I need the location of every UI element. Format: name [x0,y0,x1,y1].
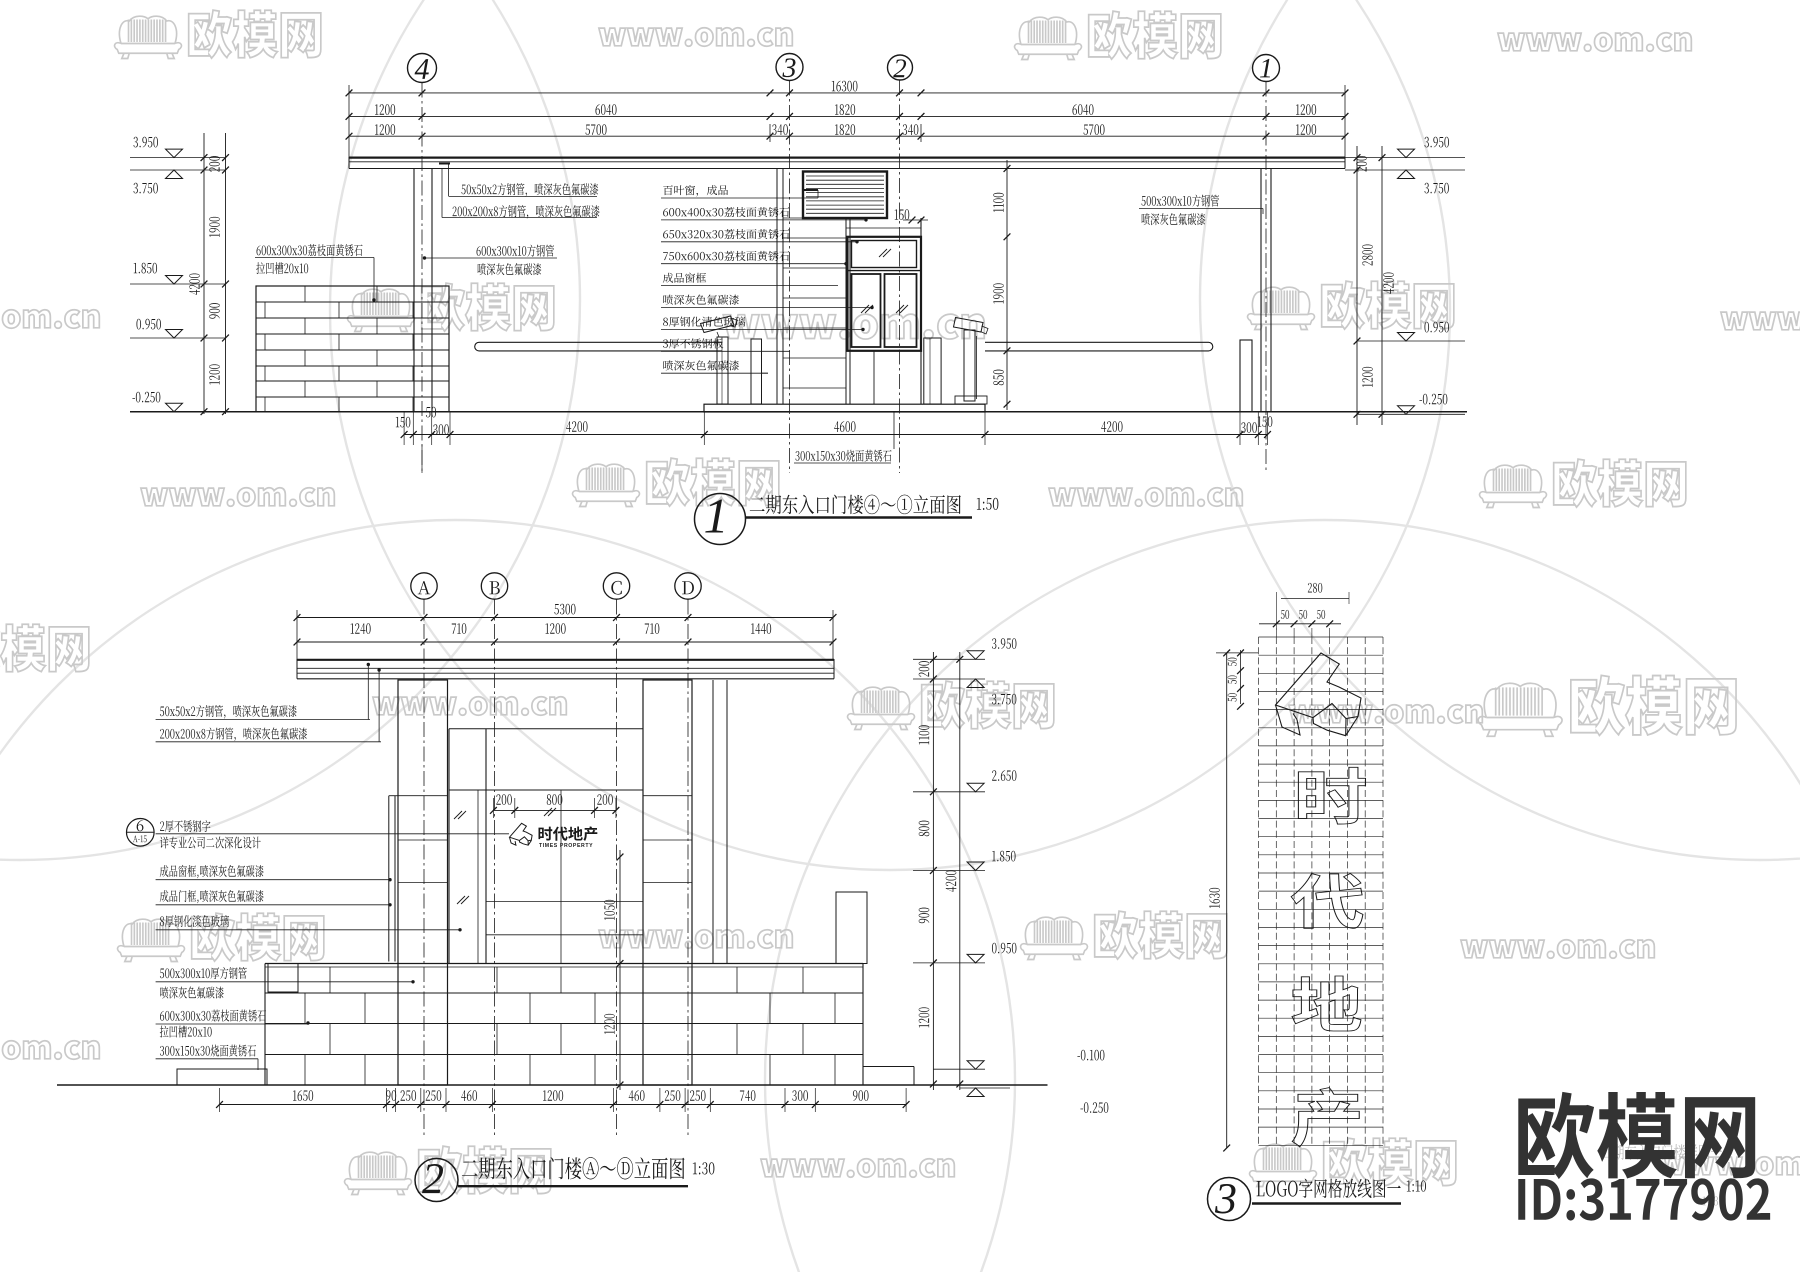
left annotations bottom drawing [160,705,297,719]
logo grid left dims [1226,653,1228,1148]
booth wall joints [783,237,846,239]
logo grid character 代 [1291,873,1363,928]
barrier pivot post right [1240,340,1252,412]
pier left grid A [398,680,448,1085]
camera head right [954,318,984,333]
camera mast right [964,330,975,401]
camera base plate right [955,396,987,404]
central window door [448,729,450,964]
ground line top drawing [130,411,1467,413]
ghost title text [1601,1144,1722,1160]
ground line bottom drawing [57,1084,1048,1086]
title bubble drawing 2 [415,1159,458,1202]
logo mark small [510,823,533,845]
annotation stainless letters [160,820,210,832]
column grid 1 [1260,169,1262,412]
grid line 3 centerline [789,81,791,474]
logo mark large outline [1276,653,1362,736]
top dimension row 3 [349,135,1345,137]
grid centerlines A B C D [423,600,425,1138]
logo wall joints [560,790,562,964]
bottom dim line bottom drawing [220,1104,907,1106]
logo grid mesh [1259,637,1384,1145]
pier stone joints [398,795,448,797]
right dim lines bottom drawing [932,652,934,1090]
camera mast left [717,337,728,404]
annotation 600x300x30 stone [257,244,363,256]
logo sign dim 200 800 200 [493,809,616,811]
annotation tempered glass [160,915,229,927]
booth plinth [704,404,985,412]
top dimension row 2 [349,115,1345,117]
top dimension row 16300 [349,92,1345,94]
louver 150 dim [895,209,910,220]
logo grid top dims [1308,583,1322,593]
barrier arm right [985,342,1213,351]
grid bubble 1 [1253,55,1280,82]
ticket machine right [924,338,941,404]
roof canopy top elevation [349,157,1345,159]
grid bubble 2 [888,55,913,80]
grid bubble 4 [408,54,437,83]
right step block [863,1066,914,1068]
left elevation markers [130,157,226,159]
side window strip [388,796,390,962]
annotation column right of 2 [663,185,728,197]
site logo text [1518,1092,1755,1179]
title drawing 2 [462,1157,685,1179]
annotation 300x150x30 stone [795,450,891,462]
annotation 50x50x2 steel tube [461,183,598,197]
logo text 时代地产 [539,826,598,841]
annotation 600x300x10 steel tube [477,245,555,257]
svg-text:TIMES PROPERTY: TIMES PROPERTY [539,843,593,849]
grid bubble B [481,573,507,599]
curb stone left [177,1069,267,1085]
roof canopy bottom drawing [297,659,834,661]
watermark tiles [115,16,182,58]
title bubble drawing 3 [1208,1178,1251,1221]
annotation door frame [160,890,264,903]
base wall end cap [268,964,298,993]
detail bubble 6 [127,819,155,847]
grid line 1 centerline [1265,82,1267,474]
louver leader hook [803,189,818,191]
annotation 300x150x30 stone bottom [160,1045,256,1057]
camera head left [701,316,735,333]
base wall bottom drawing [265,963,863,965]
grid line 2 centerline [899,80,901,473]
stone wall block left [256,286,449,412]
booth window assembly [848,237,922,351]
base wall vertical joints [329,967,331,993]
grid bubble D [675,573,701,599]
right pilaster [836,892,867,964]
left elevation dim line segments [203,133,205,414]
right elevation markers [1345,157,1465,159]
logo grid character 地 [1292,976,1361,1031]
barrier arm left [475,342,722,351]
annotation 500x300x10 square steel tube [1141,195,1219,207]
site id text [1518,1178,1770,1220]
interior dim 1050 1200 [619,850,621,1090]
column grid 4 [413,169,415,412]
grid bubble C [603,573,629,599]
title drawing 3 [1257,1179,1401,1198]
top dimension extension lines [348,85,350,157]
louver window [803,172,887,219]
logo grid character 时 [1298,767,1365,824]
right outer dim lines [1356,146,1358,425]
pier right [643,680,692,1085]
annotation 600x300x30 stone bottom [160,1010,266,1022]
transom lines [449,728,643,730]
bottom dim line top drawing [404,434,1268,436]
right wall strip [712,680,714,964]
annotation 200x200x8 steel tube [453,205,600,219]
grid bubble 3 [776,54,803,81]
grid bubble A [411,573,437,599]
title drawing 1 [750,495,961,515]
right elevation extension lines [913,658,985,660]
grid line 4 centerline [421,83,423,474]
booth pier edge lines [776,169,778,404]
annotation window frame [160,865,264,878]
ticket machine left [751,339,762,404]
interior height dim line [1006,160,1008,410]
right elevation markers bottom drawing [992,638,1016,649]
booth wall below window [873,351,875,404]
title bubble drawing 1 [695,494,746,545]
annotation 500x300x10 steel column [160,967,247,979]
logo grid character 产 [1292,1088,1359,1147]
dim row segments bottom drawing [297,641,833,643]
dim row 5300 [297,617,833,619]
